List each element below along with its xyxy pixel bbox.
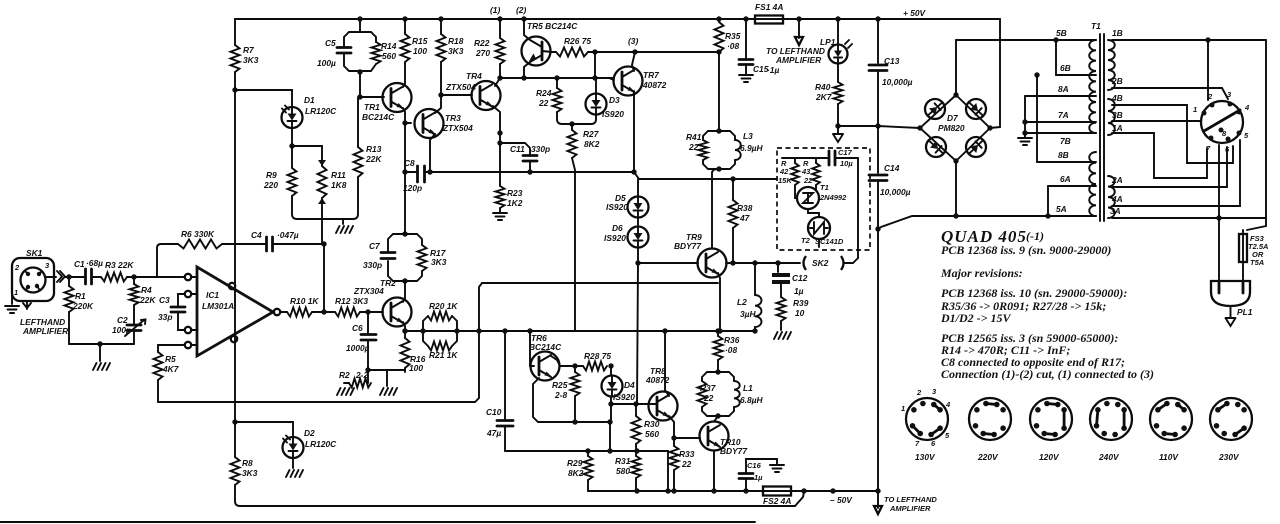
ground input bus — [93, 363, 110, 370]
connector SK1 pin stub — [23, 301, 31, 309]
svg-text:R24: R24 — [536, 88, 552, 98]
svg-text:C17: C17 — [838, 148, 853, 157]
svg-text:1µ: 1µ — [754, 473, 763, 482]
svg-text:22: 22 — [803, 176, 813, 185]
resistor R38 — [730, 176, 735, 181]
node R25 top — [572, 363, 577, 368]
wire TR9 collector — [712, 169, 719, 249]
ground power centre — [837, 126, 839, 134]
svg-text:R22: R22 — [474, 38, 490, 48]
connector SK3 voltage selector — [1201, 101, 1243, 143]
svg-text:AMPLIFIER: AMPLIFIER — [22, 326, 68, 336]
node C5 R14 bottom — [357, 69, 362, 74]
svg-text:(-1): (-1) — [1026, 229, 1044, 243]
transistor TR7 — [614, 67, 643, 96]
resistor R1 — [68, 277, 70, 286]
svg-text:IS920: IS920 — [606, 202, 628, 212]
triac T1 diac — [797, 187, 819, 209]
wire -50V arrow — [877, 491, 879, 508]
svg-text:100: 100 — [413, 46, 427, 56]
wire TR5 emitter — [524, 62, 530, 78]
pin IC1 bottom — [231, 336, 237, 342]
node 6B link — [1034, 72, 1039, 77]
selector link — [1204, 110, 1240, 131]
diode D3 — [595, 78, 597, 93]
svg-text:R18: R18 — [448, 36, 464, 46]
svg-text:110V: 110V — [1159, 452, 1179, 462]
resistor R40 — [834, 82, 843, 104]
svg-text:SK1: SK1 — [26, 248, 43, 258]
resistor R6 feedback — [157, 244, 178, 270]
node C7 R17 bottom — [402, 278, 407, 283]
wire tap 8A — [1025, 95, 1096, 97]
svg-text:1: 1 — [901, 404, 905, 413]
capacitor C3 — [178, 294, 185, 330]
rectifier D7 frame — [920, 95, 990, 161]
svg-text:C10: C10 — [486, 407, 502, 417]
wire low feedback line — [505, 451, 668, 491]
svg-text:ZTX504: ZTX504 — [442, 123, 473, 133]
wire tap 3A — [1112, 217, 1266, 219]
svg-text:R25: R25 — [552, 380, 568, 390]
svg-text:100: 100 — [409, 363, 423, 373]
svg-text:2-2: 2-2 — [355, 370, 368, 380]
svg-text:22: 22 — [538, 98, 549, 108]
selector diagram 110V — [1150, 398, 1192, 440]
node (2) — [521, 16, 526, 21]
svg-text:PCB 12368 iss. 10 (sn. 29000-5: PCB 12368 iss. 10 (sn. 29000-59000): — [941, 286, 1127, 300]
svg-text:L1: L1 — [743, 383, 753, 393]
selector diagram 130V — [906, 398, 948, 440]
svg-text:270: 270 — [475, 48, 490, 58]
node D2 branch — [232, 419, 237, 424]
capacitor C12 — [775, 260, 780, 265]
svg-text:6.9µH: 6.9µH — [740, 143, 763, 153]
diode D5 — [637, 179, 639, 196]
svg-text:·047µ: ·047µ — [277, 230, 299, 240]
svg-text:100µ: 100µ — [317, 58, 336, 68]
resistor R8 — [231, 457, 240, 485]
svg-text:1000µ: 1000µ — [346, 343, 370, 353]
ground transformer primary — [1024, 133, 1026, 138]
svg-text:R40: R40 — [815, 82, 831, 92]
node bridge bottom — [953, 158, 958, 163]
wire nfb line high — [482, 282, 718, 284]
ground R2 — [337, 388, 354, 395]
connector SK1 socket — [21, 268, 46, 293]
node bridge left — [917, 125, 922, 130]
svg-text:T1: T1 — [820, 183, 829, 192]
svg-text:R41: R41 — [686, 132, 702, 142]
svg-text:(2): (2) — [516, 5, 526, 15]
svg-text:IC1: IC1 — [206, 290, 219, 300]
node R18 TR4 base — [438, 92, 443, 97]
svg-text:22: 22 — [688, 142, 699, 152]
svg-text:BDY77: BDY77 — [674, 241, 701, 251]
svg-text:D1/D2 -> 15V: D1/D2 -> 15V — [940, 311, 1012, 325]
resistor R17 — [418, 245, 427, 271]
node C5 R14 rail — [357, 16, 362, 21]
svg-text:10,000µ: 10,000µ — [880, 187, 911, 197]
wire R27 long drop — [572, 158, 575, 331]
node R31 top — [634, 448, 639, 453]
wire TR8 base — [646, 403, 657, 405]
svg-text:– 50V: – 50V — [830, 495, 853, 505]
node feedback tap — [476, 328, 481, 333]
wire -50V column — [877, 229, 879, 491]
diode D1 — [282, 107, 303, 128]
capacitor C15 — [745, 19, 747, 74]
svg-text:·1µ: ·1µ — [767, 65, 779, 75]
svg-text:·08: ·08 — [727, 41, 739, 51]
connector SK1 outline — [12, 258, 54, 301]
selector diagram 120V — [1030, 398, 1072, 440]
resistor R21 — [428, 342, 452, 351]
transformer primary winding lower — [1089, 152, 1096, 216]
svg-text:220: 220 — [263, 180, 278, 190]
wire tap 8B — [1037, 161, 1096, 163]
svg-text:3B: 3B — [1112, 110, 1123, 120]
node R20 right — [454, 328, 459, 333]
resistor R14 — [372, 42, 381, 64]
svg-text:1A: 1A — [1112, 123, 1123, 133]
resistor R41 L3 loop — [703, 131, 719, 140]
capacitor C13 — [877, 19, 879, 126]
capacitor C16 — [745, 480, 747, 491]
node rail joins — [634, 488, 639, 493]
svg-text:2-8: 2-8 — [554, 390, 567, 400]
svg-text:4K7: 4K7 — [162, 364, 179, 374]
node R20 left — [420, 328, 425, 333]
svg-text:C11: C11 — [510, 144, 525, 154]
svg-text:ZTX504: ZTX504 — [445, 82, 476, 92]
resistor R31 — [635, 451, 637, 456]
pin IC1 comp2 — [185, 327, 191, 333]
wire TR4 collector — [493, 106, 500, 133]
resistor R33 — [673, 438, 675, 446]
svg-text:22K: 22K — [365, 154, 382, 164]
resistor R20 — [428, 312, 452, 321]
svg-text:D6: D6 — [612, 223, 623, 233]
svg-text:Connection (1)-(2) cut, (1) co: Connection (1)-(2) cut, (1) connected to… — [941, 367, 1154, 381]
wire TR5 collector — [524, 19, 530, 40]
svg-text:8K2: 8K2 — [584, 139, 600, 149]
node R30 top — [633, 401, 638, 406]
svg-text:C6: C6 — [352, 323, 363, 333]
transistor TR4 — [472, 81, 501, 110]
wire R40 to C13 junction — [838, 125, 878, 127]
resistor R37 L1 loop — [702, 372, 718, 381]
bottom border line — [0, 521, 755, 523]
svg-text:5A: 5A — [1056, 204, 1067, 214]
svg-text:22: 22 — [703, 393, 714, 403]
node C13 top — [875, 16, 880, 21]
resistor R39 — [777, 297, 786, 321]
svg-text:40872: 40872 — [642, 80, 667, 90]
wire TR3 collector — [435, 95, 441, 113]
transformer secondary winding 2 — [1108, 99, 1115, 135]
svg-text:D3: D3 — [609, 95, 620, 105]
wire 6B to 8B link — [1036, 75, 1038, 162]
diode D4 — [610, 366, 612, 375]
svg-text:R37: R37 — [700, 383, 716, 393]
wire tap 6A — [1048, 185, 1096, 187]
capacitor C5 R14 loop top — [344, 32, 360, 46]
svg-text:TR7: TR7 — [643, 70, 659, 80]
node D4 bottom join — [607, 448, 612, 453]
svg-text:FS1 4A: FS1 4A — [755, 2, 783, 12]
node (3) — [632, 49, 637, 54]
wire output node line — [405, 330, 756, 332]
pin IC1 comp1 — [185, 291, 191, 297]
resistor R15 — [402, 16, 407, 21]
wire D6 column down — [637, 263, 638, 404]
transistor TR8 — [649, 392, 678, 421]
resistor R35 — [715, 22, 724, 52]
fuse FS3 — [1239, 234, 1247, 262]
transistor TR9 — [698, 249, 727, 278]
svg-text:4: 4 — [945, 400, 951, 409]
resistor R5 — [154, 352, 163, 380]
node top rail corner — [999, 19, 1001, 127]
wire TR6 collector — [551, 356, 560, 366]
node TR8 base line — [608, 401, 613, 406]
svg-text:IS920: IS920 — [602, 109, 624, 119]
svg-text:2: 2 — [1207, 92, 1213, 101]
resistor R37 — [698, 381, 707, 407]
svg-text:R2: R2 — [339, 370, 350, 380]
svg-text:LM301A: LM301A — [202, 301, 234, 311]
ground C15 — [739, 75, 753, 82]
node TR4 collector — [497, 130, 502, 135]
transistor TR2 — [383, 298, 412, 327]
svg-text:22: 22 — [681, 459, 692, 469]
node R38 bottom join — [730, 260, 735, 265]
svg-text:AMPLIFIER: AMPLIFIER — [889, 504, 931, 513]
svg-text:C16: C16 — [747, 461, 762, 470]
ground R16 node — [380, 388, 397, 395]
wire D1 bottom — [291, 128, 293, 146]
svg-text:47: 47 — [739, 213, 750, 223]
wire tap 5A — [956, 215, 1096, 217]
svg-text:IS920: IS920 — [604, 233, 626, 243]
svg-text:T2: T2 — [801, 236, 811, 245]
svg-text:7B: 7B — [1060, 136, 1071, 146]
svg-text:2K7: 2K7 — [815, 92, 832, 102]
svg-text:C2: C2 — [117, 315, 128, 325]
svg-text:PM820: PM820 — [938, 123, 965, 133]
node TR9 emitter join — [717, 328, 722, 333]
transistor TR5 — [522, 37, 551, 66]
wire -50V rail — [588, 490, 878, 492]
svg-text:4B: 4B — [1111, 93, 1123, 103]
svg-text:TR1: TR1 — [364, 102, 380, 112]
transformer primary winding upper — [1089, 40, 1096, 133]
wire SK1 to C1 — [45, 276, 56, 278]
svg-text:PL1: PL1 — [1237, 307, 1253, 317]
capacitor C11 — [500, 143, 530, 154]
transistor TR10 — [700, 422, 729, 451]
wire TR4 emitter line — [495, 78, 500, 86]
svg-text:R7: R7 — [243, 45, 254, 55]
svg-text:T1: T1 — [1091, 21, 1101, 31]
svg-text:560: 560 — [645, 429, 659, 439]
node R29 top — [585, 448, 590, 453]
svg-text:R23: R23 — [507, 188, 523, 198]
svg-text:R29: R29 — [567, 458, 583, 468]
wire TR9 emitter — [718, 273, 720, 331]
svg-text:TR5 BC214C: TR5 BC214C — [527, 21, 578, 31]
wire bias line jog — [634, 172, 777, 179]
resistor R11 select — [321, 157, 323, 166]
svg-text:R8: R8 — [242, 458, 253, 468]
node TR8 emitter join — [671, 435, 676, 440]
svg-text:R33: R33 — [679, 449, 695, 459]
wire TR9 right line — [726, 262, 800, 264]
node R41 L3 top — [716, 128, 721, 133]
wire triac internal — [795, 185, 797, 198]
plug PL1 — [1211, 281, 1250, 306]
node TR3 emitter junction — [427, 169, 432, 174]
resistor R12 — [335, 308, 360, 317]
wire bias ground bus — [297, 218, 353, 220]
svg-text:42: 42 — [779, 167, 789, 176]
pin IC1 out — [274, 309, 280, 315]
transistor TR1 — [383, 83, 412, 112]
selector diagram 220V — [969, 398, 1011, 440]
wire triac box top — [782, 157, 826, 159]
svg-text:R31: R31 — [615, 456, 631, 466]
ground C16 — [770, 465, 784, 472]
resistor R9 — [291, 146, 293, 168]
resistor R26 — [556, 48, 588, 57]
node bridge top — [953, 92, 958, 97]
svg-text:T5A: T5A — [1250, 258, 1264, 267]
ground R39 — [774, 332, 791, 339]
diode D7a — [925, 99, 945, 119]
wire tap 7B — [1025, 132, 1096, 134]
wire tap 6B — [1056, 74, 1096, 76]
ground PL1 — [1230, 306, 1232, 318]
node C15 top — [743, 16, 748, 21]
node TR1 base — [357, 94, 362, 99]
svg-text:LP1: LP1 — [820, 37, 836, 47]
svg-text:8K2: 8K2 — [568, 468, 584, 478]
svg-text:R26 75: R26 75 — [564, 36, 591, 46]
svg-text:230V: 230V — [1218, 452, 1240, 462]
svg-text:R11: R11 — [331, 170, 346, 180]
svg-text:120V: 120V — [1039, 452, 1060, 462]
capacitor C2 trimmer — [127, 325, 141, 331]
node R27 top — [569, 121, 574, 126]
svg-text:D2: D2 — [304, 428, 315, 438]
svg-text:R39: R39 — [793, 298, 809, 308]
resistor R42 — [794, 158, 796, 163]
node TR9 base node — [635, 260, 640, 265]
svg-text:R6 330K: R6 330K — [181, 229, 215, 239]
node TR1 TR3 base — [402, 120, 407, 125]
node bridge right — [987, 125, 992, 130]
wire R35 to L3 — [718, 52, 720, 131]
ground D2 — [292, 458, 294, 468]
svg-text:R35: R35 — [725, 31, 741, 41]
wire left rail — [234, 72, 236, 457]
node 3A to plug — [1216, 215, 1221, 220]
resistor R16 — [402, 328, 407, 333]
wire tap 4B — [1112, 105, 1233, 163]
svg-text:ZTX304: ZTX304 — [353, 286, 384, 296]
resistor R29 — [587, 451, 589, 456]
svg-text:220K: 220K — [72, 301, 94, 311]
inductor L1 — [734, 381, 740, 407]
capacitor C14 — [877, 126, 879, 229]
fuse FS1 — [755, 16, 783, 24]
svg-text:2: 2 — [916, 388, 922, 397]
wire TR4 col to R23 — [499, 133, 501, 186]
svg-text:BC214C: BC214C — [362, 112, 395, 122]
svg-text:240V: 240V — [1098, 452, 1120, 462]
svg-text:R36: R36 — [724, 335, 740, 345]
svg-text:1: 1 — [1193, 105, 1197, 114]
svg-text:R27: R27 — [583, 129, 599, 139]
resistor R3 — [101, 273, 127, 282]
resistor R43 — [815, 158, 817, 163]
resistor R22 — [497, 16, 502, 21]
wire tap 3B — [1112, 120, 1201, 122]
svg-text:R20 1K: R20 1K — [429, 301, 458, 311]
svg-text:5B: 5B — [1056, 28, 1067, 38]
selector pins — [1202, 111, 1207, 116]
svg-text:D7: D7 — [947, 113, 958, 123]
wire bridge bottom to C14 — [878, 216, 956, 229]
wire tap 5B — [956, 39, 1096, 41]
svg-text:C4: C4 — [251, 230, 262, 240]
capacitor C1 — [86, 269, 92, 284]
resistor R28 — [583, 362, 607, 371]
svg-text:SK2: SK2 — [812, 258, 829, 268]
resistor R27 — [571, 124, 573, 130]
svg-text:FS2 4A: FS2 4A — [763, 496, 791, 506]
node input bus — [97, 341, 102, 346]
svg-text:220V: 220V — [977, 452, 999, 462]
svg-text:C7: C7 — [369, 241, 380, 251]
svg-text:4A: 4A — [1111, 194, 1123, 204]
node D1 R9 R11 — [289, 143, 294, 148]
resistor R30 — [635, 404, 637, 416]
svg-text:D4: D4 — [624, 380, 635, 390]
wire TR8 collector — [665, 331, 669, 396]
resistor R20 R21 loop — [423, 316, 428, 331]
svg-text:C5: C5 — [325, 38, 336, 48]
node TR7 base feed — [592, 49, 597, 54]
pin IC1 in+ — [185, 274, 191, 280]
node 5B link — [1053, 37, 1058, 42]
svg-text:6A: 6A — [1060, 174, 1071, 184]
svg-text:130V: 130V — [915, 452, 936, 462]
node C14 bottom — [875, 226, 880, 231]
wire TR1 collector — [403, 108, 405, 123]
wire y52 to R35 — [588, 51, 719, 53]
svg-text:R15: R15 — [412, 36, 428, 46]
capacitor C17 — [829, 151, 835, 165]
capacitor C10 — [504, 331, 506, 419]
op-amp IC1 — [197, 267, 273, 356]
wire tap 1A — [1112, 133, 1207, 178]
node C10 top — [502, 328, 507, 333]
resistor R24 — [554, 75, 559, 80]
capacitor C8 — [405, 171, 416, 173]
triac box dashed — [777, 148, 870, 250]
